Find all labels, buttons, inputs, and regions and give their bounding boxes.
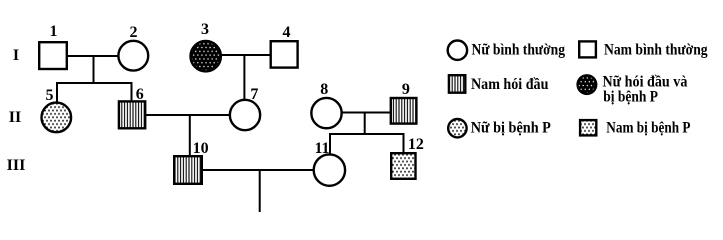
- svg-text:12: 12: [408, 136, 424, 153]
- svg-text:II: II: [9, 109, 21, 126]
- svg-text:I: I: [13, 47, 19, 64]
- svg-text:Nam hói đầu: Nam hói đầu: [471, 76, 549, 93]
- svg-text:Nam bình thường: Nam bình thường: [604, 42, 708, 59]
- wire marriage 6-7: [145, 114, 230, 116]
- legend normal female circle: [448, 41, 467, 60]
- svg-text:4: 4: [283, 24, 291, 41]
- svg-text:2: 2: [130, 24, 138, 41]
- wire marriage 10-11: [202, 169, 314, 171]
- wire drop from 8-9: [364, 113, 366, 135]
- individual 1 normal male square: [39, 42, 67, 69]
- individual 7 normal female circle: [230, 100, 260, 130]
- individual 3 affected female dark dotted circle: [191, 41, 221, 71]
- svg-text:7: 7: [250, 86, 258, 103]
- legend normal male square: [579, 41, 596, 57]
- wire sibling line 5-6: [56, 82, 133, 84]
- wire hanging drop from 10-11: [259, 170, 261, 212]
- legend bald male striped square: [449, 75, 465, 93]
- svg-text:8: 8: [320, 81, 328, 98]
- wire marriage 3-4: [221, 54, 271, 56]
- svg-text:11: 11: [314, 140, 329, 157]
- individual 8 normal female circle: [311, 98, 341, 128]
- individual 2 normal female circle: [118, 41, 148, 71]
- wire drop to 12: [403, 134, 405, 153]
- legend P male dotted square: [580, 120, 596, 135]
- wire drop to 6: [131, 83, 133, 101]
- svg-text:Nữ bình thường: Nữ bình thường: [472, 42, 566, 59]
- svg-text:9: 9: [402, 81, 410, 98]
- wire drop from 1-2: [93, 56, 95, 84]
- wire drop to 10: [189, 115, 191, 156]
- svg-text:6: 6: [136, 86, 144, 103]
- svg-text:5: 5: [46, 87, 54, 104]
- wire sibling line 11-12: [329, 133, 405, 135]
- wire drop to 7: [243, 55, 245, 100]
- svg-text:Nam bị bệnh P: Nam bị bệnh P: [606, 120, 691, 137]
- legend P female dotted circle: [448, 119, 466, 137]
- individual 10 striped male square: [174, 156, 202, 184]
- svg-text:3: 3: [201, 21, 209, 38]
- svg-text:bị bệnh P: bị bệnh P: [603, 89, 658, 106]
- svg-text:10: 10: [193, 140, 209, 157]
- individual 11 normal female circle: [314, 154, 345, 185]
- svg-text:III: III: [7, 157, 26, 174]
- wire marriage 8-9: [342, 112, 391, 114]
- wire drop to 5: [56, 83, 58, 103]
- individual 5 dotted female circle: [42, 103, 72, 133]
- svg-text:Nữ bị bệnh P: Nữ bị bệnh P: [471, 120, 552, 137]
- svg-text:1: 1: [50, 23, 58, 40]
- individual 6 striped male square: [119, 101, 145, 128]
- legend bald+P female dark circle: [578, 75, 597, 94]
- individual 12 dotted male square: [391, 153, 415, 179]
- individual 4 normal male square: [271, 41, 298, 67]
- individual 9 striped male square: [391, 98, 417, 124]
- wire marriage 1-2: [66, 55, 119, 57]
- wire drop to 11: [329, 134, 331, 155]
